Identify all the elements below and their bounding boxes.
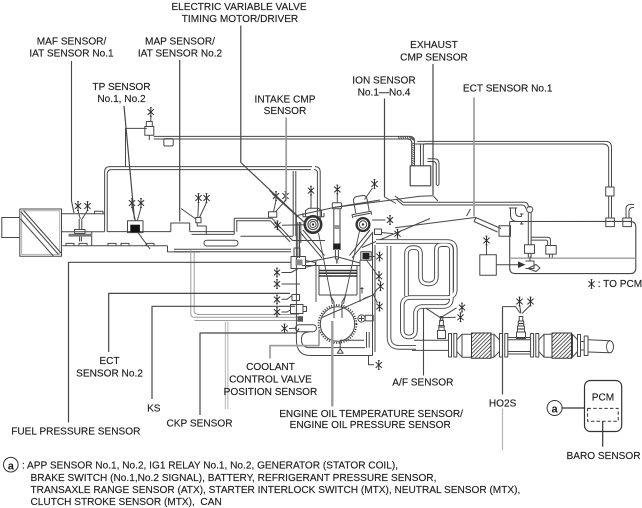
leader A/F	[423, 308, 425, 376]
svg-text:POSITION SENSOR: POSITION SENSOR	[224, 387, 318, 398]
valve V lines left	[298, 222, 325, 258]
cam cap intake	[303, 208, 324, 217]
svg-text:ION SENSOR: ION SENSOR	[352, 76, 415, 87]
leader ECT No.1 (gray)	[473, 98, 475, 217]
leader KS	[152, 306, 295, 399]
transaxle rounded box	[510, 221, 636, 273]
leader EVVT	[241, 26, 306, 224]
svg-text:ECT: ECT	[99, 356, 119, 367]
svg-text:IAT SENSOR No.1: IAT SENSOR No.1	[29, 48, 114, 59]
svg-text:MAF SENSOR/: MAF SENSOR/	[37, 36, 107, 47]
cam chain lines	[319, 231, 360, 304]
gray coolant pipe left	[191, 250, 299, 317]
svg-text:TO PCM: TO PCM	[603, 279, 642, 290]
svg-text::: :	[598, 279, 601, 290]
intake runner part stars	[269, 192, 289, 218]
manifold tabs	[66, 243, 154, 245]
dipstick ball	[527, 206, 533, 212]
engine mount triangle	[337, 340, 364, 353]
manifold lower edge	[62, 246, 200, 252]
injector connector dark	[361, 252, 371, 260]
svg-text:CLUTCH STROKE SENSOR (MTX), C: CLUTCH STROKE SENSOR (MTX), CAN	[31, 497, 222, 508]
svg-text:TIMING MOTOR/DRIVER: TIMING MOTOR/DRIVER	[182, 14, 298, 25]
gray pipe drop to coolant label area	[225, 322, 228, 410]
tail flange	[581, 336, 589, 356]
engine block right edge	[373, 233, 376, 356]
svg-text:FUEL PRESSURE SENSOR: FUEL PRESSURE SENSOR	[11, 426, 140, 437]
svg-text:CONTROL VALVE: CONTROL VALVE	[229, 374, 312, 385]
legend circle a	[4, 457, 19, 472]
svg-text:a: a	[552, 404, 559, 416]
harness wire B top right	[415, 141, 612, 187]
tail pipe	[588, 340, 614, 353]
leader COOLANT (gray)	[270, 331, 319, 359]
mid shelf line	[92, 218, 293, 246]
svg-text:COOLANT: COOLANT	[246, 362, 295, 373]
ECT-like sensor right of head	[375, 229, 401, 238]
svg-text:IAT SENSOR No.2: IAT SENSOR No.2	[138, 48, 223, 59]
star above plug	[334, 185, 340, 203]
cylinder bore walls	[316, 260, 360, 302]
svg-text:ELECTRIC VARIABLE VALVE: ELECTRIC VARIABLE VALVE	[171, 2, 306, 13]
leader MAP	[179, 60, 181, 222]
drop pipes to small boxes	[528, 213, 531, 245]
connector box 2 + elbow	[623, 218, 632, 227]
block left sensors: pill	[296, 325, 317, 332]
flange pair 1	[449, 334, 457, 358]
gray line below HO2S	[502, 409, 504, 451]
engine block left edge	[296, 216, 299, 340]
hatched harness segment	[398, 136, 415, 166]
leader INTAKE CMP (gray)	[285, 118, 287, 201]
air cleaner filter diagonals	[21, 211, 62, 257]
svg-text:No.1—No.4: No.1—No.4	[358, 87, 411, 98]
BARO leader	[602, 421, 604, 447]
svg-text:ENGINE OIL PRESSURE SENSOR: ENGINE OIL PRESSURE SENSOR	[290, 420, 451, 431]
block left sensors: rect part	[291, 305, 307, 314]
leader ENGINE OIL (gray)	[331, 321, 333, 407]
plenum chamber box	[105, 167, 312, 232]
purge solenoid	[145, 122, 173, 147]
leader ION	[384, 99, 386, 198]
leader TP	[124, 106, 135, 220]
leader EXHAUST CMP	[432, 64, 434, 195]
small box pair mid right	[525, 245, 535, 254]
svg-text:INTAKE CMP: INTAKE CMP	[255, 94, 316, 105]
star above coil	[365, 180, 378, 200]
engine block bottom	[296, 340, 372, 356]
CKP sensor	[358, 315, 373, 322]
star right of exhaust cam	[372, 216, 393, 225]
air cleaner box	[20, 209, 62, 256]
purge star	[148, 108, 154, 122]
MAP stars	[195, 194, 209, 218]
star left of intake cam gear	[274, 221, 304, 230]
injector + fuel rail end	[291, 248, 316, 269]
A/F sensor	[438, 317, 446, 339]
svg-text:CKP SENSOR: CKP SENSOR	[166, 419, 232, 430]
svg-text:EXHAUST: EXHAUST	[410, 40, 458, 51]
svg-text:ECT SENSOR No.1: ECT SENSOR No.1	[463, 83, 553, 94]
ION coil slanted lines to head	[335, 197, 396, 207]
svg-text:: APP SENSOR No.1, No.2, IG1 R: : APP SENSOR No.1, No.2, IG1 RELAY No.1,…	[22, 461, 398, 472]
star: TO PCM	[588, 280, 594, 289]
manifold bottom line to engine	[241, 236, 326, 240]
leader ECT No.2	[109, 293, 290, 352]
right drop to connector	[609, 196, 612, 218]
leader HO2S	[502, 307, 504, 395]
exhaust cam gear	[357, 218, 370, 231]
HO2S sensor	[517, 317, 526, 339]
legend text	[22, 461, 520, 508]
valve cover left slant	[270, 191, 299, 218]
leader CKP	[200, 329, 299, 416]
svg-text:TP SENSOR: TP SENSOR	[92, 82, 150, 93]
A/F stars	[426, 303, 465, 322]
TP sensor	[128, 221, 151, 249]
harness wire C (engine top right)	[395, 196, 528, 209]
harness wire A (to exhaust CMP, hatched right part)	[126, 128, 398, 166]
svg-text:KS: KS	[147, 404, 161, 415]
leader MAF	[72, 61, 75, 213]
left stars column	[274, 268, 300, 333]
svg-text:a: a	[8, 460, 15, 472]
svg-text:A/F SENSOR: A/F SENSOR	[392, 377, 453, 388]
MAF sensor	[69, 219, 92, 242]
ignition coil on plug	[352, 195, 372, 218]
CMP box drop wires	[421, 144, 434, 166]
thick intake pipe to transaxle	[474, 218, 501, 232]
svg-text:BARO SENSOR: BARO SENSOR	[567, 451, 641, 462]
exhaust CMP sensor box	[410, 166, 431, 186]
fuel rail line	[174, 249, 291, 251]
crank CKP toothed wheel	[319, 305, 357, 343]
PCM box	[585, 381, 622, 432]
head right lower slant	[362, 219, 430, 248]
connector box 1	[606, 218, 615, 227]
svg-text:SENSOR No.2: SENSOR No.2	[76, 368, 143, 379]
PCV pipe left of engine	[293, 171, 296, 236]
svg-text:SENSOR: SENSOR	[264, 106, 307, 117]
mid pipe	[508, 338, 531, 355]
svg-text:TRANSAXLE RANGE SENSOR (ATX),: TRANSAXLE RANGE SENSOR (ATX), STARTER IN…	[31, 485, 521, 496]
star above intake cam cap	[308, 186, 314, 208]
catalytic converter 1	[457, 333, 500, 358]
leader FUEL PRESSURE	[69, 262, 292, 422]
svg-text:MAP SENSOR/: MAP SENSOR/	[145, 36, 215, 47]
intake cam gear (VVT actuator)	[305, 216, 321, 232]
slash mark	[467, 209, 471, 216]
svg-text:HO2S: HO2S	[489, 398, 517, 409]
MAF stars	[75, 202, 91, 219]
TP stars	[129, 199, 144, 221]
combustion chamber	[302, 257, 360, 266]
catalytic converter 2	[539, 333, 578, 358]
intake duct	[62, 211, 105, 231]
svg-text:BRAKE SWITCH (No.1,No.2 SIGNAL: BRAKE SWITCH (No.1,No.2 SIGNAL), BATTERY…	[31, 473, 437, 484]
block left sensors: bolt	[292, 295, 300, 301]
center spark plug tube	[332, 203, 341, 264]
transaxle shift part	[526, 257, 541, 272]
right stars cluster	[322, 252, 384, 317]
flange pair 2	[500, 334, 508, 358]
valve V lines right	[350, 230, 374, 258]
head top line	[297, 196, 433, 216]
node box on right drop	[606, 187, 614, 196]
arrow to transaxle part	[496, 264, 518, 266]
lower manifold tube	[204, 240, 238, 246]
head gasket slant right	[395, 196, 476, 228]
exhaust pipe front section	[412, 340, 449, 350]
MAP sensor part	[181, 209, 206, 235]
svg-text:CMP SENSOR: CMP SENSOR	[400, 53, 468, 64]
star below block right	[376, 361, 382, 370]
circle a near PCM	[547, 401, 584, 416]
starter box with star	[480, 255, 497, 275]
flange pair 3	[531, 334, 539, 358]
heater elbow pipe	[509, 208, 524, 224]
svg-text:ENGINE OIL TEMPERATURE SENSOR/: ENGINE OIL TEMPERATURE SENSOR/	[279, 409, 463, 420]
HO2S stars	[503, 297, 534, 313]
svg-text:No.1, No.2: No.1, No.2	[97, 94, 146, 105]
flange 4	[578, 335, 581, 357]
J hook pipe	[428, 159, 440, 186]
piston	[319, 266, 357, 319]
serpentine EGR cooler	[376, 242, 455, 348]
air cleaner inlet tab	[2, 218, 20, 238]
svg-text:PCM: PCM	[592, 393, 614, 404]
